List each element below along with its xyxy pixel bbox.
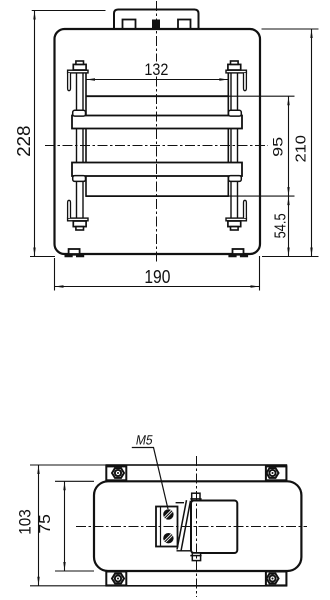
nut bottom-left [112, 574, 124, 584]
tab bottom-left [106, 572, 126, 586]
bus bar lower [72, 163, 242, 177]
dimension 132 [86, 79, 228, 81]
vertical centerline bottom view [196, 456, 198, 597]
collar bottom-right [229, 176, 242, 182]
cap bottom-right [231, 227, 239, 230]
terminal screw upper [163, 509, 173, 519]
tab top-right [266, 466, 287, 480]
cover tab top [192, 493, 200, 500]
cap top-left [76, 61, 84, 64]
washer bottom-left [68, 218, 88, 221]
collar top-right [229, 110, 242, 116]
nut bottom-left [73, 221, 86, 227]
window top edge [86, 95, 228, 97]
dimension 190 [54, 258, 56, 291]
cap bottom-left [76, 227, 84, 230]
svg-text:54.5: 54.5 [273, 213, 290, 238]
dimension 210 [262, 28, 319, 30]
nut top-left [73, 64, 86, 70]
secondary cover box [191, 501, 237, 554]
terminal wedge [177, 500, 187, 549]
terminal block on top of body [114, 10, 199, 30]
foot bottom-right slot [233, 249, 244, 254]
cover tab bottom [192, 553, 200, 561]
dimension 54.5 [288, 196, 290, 256]
nut top-left [112, 468, 124, 478]
bolt right shaft [230, 73, 232, 219]
bracket hook bottom-left [68, 200, 71, 218]
mounting flange top [106, 465, 286, 481]
cap top-right [231, 61, 239, 64]
tab bottom-right [266, 572, 287, 586]
horizontal centerline bottom view [76, 526, 307, 528]
side body outline [94, 481, 301, 571]
dimension 228 [32, 10, 106, 12]
nut top-right [228, 64, 241, 70]
dimension 75 [55, 480, 94, 482]
dimension 103 [30, 464, 106, 466]
core window right edge [227, 73, 229, 197]
core window left edge [85, 73, 87, 197]
collar bottom-left [73, 176, 86, 182]
foot bottom-left pad [65, 254, 85, 257]
vertical centerline top view [156, 1, 158, 62]
extension line 95 top [228, 95, 294, 97]
bus bar upper [72, 116, 242, 129]
svg-text:190: 190 [144, 267, 170, 287]
terminal screw lower [163, 533, 173, 543]
terminal slot left [123, 20, 136, 30]
washer top-right [226, 70, 246, 73]
leader M5 [132, 448, 168, 510]
washer bottom-right [226, 218, 246, 221]
mounting flange bottom [106, 571, 286, 586]
collar top-left [73, 110, 86, 116]
dimension 95 [288, 96, 290, 196]
horizontal centerline top view [45, 145, 268, 147]
nut top-right [267, 468, 279, 478]
svg-text:95: 95 [270, 137, 286, 157]
svg-text:228: 228 [14, 125, 34, 157]
nut bottom-right [228, 221, 241, 227]
bracket hook bottom-right [244, 200, 247, 218]
bolt left shaft [76, 73, 78, 219]
window bottom edge [86, 195, 228, 197]
tab top-left [106, 466, 126, 480]
foot bottom-right pad [228, 254, 248, 257]
bracket hook top-right [244, 73, 247, 91]
svg-text:M5: M5 [135, 432, 154, 447]
svg-text:132: 132 [144, 60, 168, 79]
nut bottom-right [267, 574, 279, 584]
terminal slot middle (filled) [153, 20, 160, 29]
svg-text:75: 75 [37, 514, 54, 534]
primary terminal block [156, 507, 178, 547]
bracket hook top-left [68, 73, 71, 91]
washer top-left [68, 70, 88, 73]
body outline [55, 29, 261, 254]
terminal slot right [178, 20, 191, 30]
svg-text:210: 210 [292, 135, 309, 163]
svg-text:103: 103 [16, 509, 35, 535]
extension line 95 bottom / 54.5 top [228, 195, 294, 197]
foot bottom-left slot [69, 249, 80, 254]
